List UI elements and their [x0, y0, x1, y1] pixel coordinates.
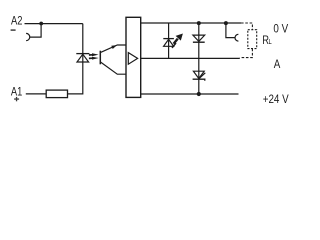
wire: indicator LED branch — [168, 23, 170, 58]
wire: A1 input lead — [26, 93, 46, 95]
minus polarity sign at A2 — [11, 29, 16, 31]
wire: drop from 0V rail to output plug contact — [226, 23, 235, 38]
phototransistor Q1: emitter arrowhead — [111, 45, 117, 49]
zener diode D4: diagonal stroke — [199, 73, 206, 79]
wire: +24V rail — [141, 93, 239, 95]
amplifier box U1 — [126, 17, 141, 97]
wire: freewheel diode branch — [198, 23, 200, 58]
optocoupler light arrow lower — [89, 57, 99, 60]
svg-text:A: A — [274, 58, 281, 71]
wire: left input riser (A2 down through LED to resistor) — [68, 24, 83, 94]
optocoupler light arrow upper — [89, 53, 99, 56]
terminal label A2 — [11, 14, 22, 28]
label 0 V — [273, 22, 288, 35]
wire: drop from A2 junction to plug contact — [30, 24, 41, 37]
zener diode D4: cathode bar with bent tip — [193, 79, 205, 81]
wire: 0V rail — [141, 22, 241, 24]
LED D2 status indicator: triangle — [164, 39, 174, 46]
terminal label A1 — [11, 85, 22, 99]
svg-text:A2: A2 — [11, 14, 22, 28]
svg-text:+24 V: +24 V — [263, 93, 289, 106]
load resistor RL (dashed outline) — [248, 30, 257, 49]
LED D2 status indicator: cathode bar — [163, 38, 174, 40]
phototransistor Q1: emitter line to box — [100, 45, 126, 53]
LED D1 optocoupler input diode: triangle — [77, 54, 89, 62]
wire: zener diode branch — [198, 58, 200, 94]
node: junction dot on 0V rail at output contact — [224, 21, 228, 25]
contact: A2 plug-in connection (arc open left) — [26, 33, 30, 40]
node: junction dot on +24V rail at zener branch — [197, 92, 201, 96]
zener diode D4: triangle — [193, 71, 204, 78]
phototransistor Q1: base bar — [99, 51, 101, 65]
wire: A2 input rail — [25, 23, 83, 25]
svg-text:A1: A1 — [11, 85, 22, 99]
node: A2 junction dot — [39, 22, 43, 26]
resistor R1 (input series resistor) — [46, 90, 67, 98]
LED D2 flash arrow (light emission) — [172, 34, 183, 48]
label A — [274, 58, 281, 71]
svg-text:L: L — [269, 38, 272, 46]
label RL — [262, 34, 272, 48]
LED D1 optocoupler input diode: cathode bar — [76, 53, 89, 55]
diode D3 freewheeling: triangle — [193, 35, 205, 41]
contact: output plug-in connection (arc open right) — [235, 34, 238, 41]
wire: A output rail — [141, 57, 240, 59]
svg-text:0 V: 0 V — [273, 22, 288, 35]
label +24 V — [263, 93, 289, 106]
wire: dashed load return to A rail — [240, 49, 253, 58]
buffer triangle inside U1 — [128, 53, 137, 65]
phototransistor Q1: collector line to box — [100, 62, 126, 74]
diode D3 freewheeling: cathode bar — [193, 41, 205, 43]
wire: dashed 0V continuation to load — [241, 23, 252, 30]
node: junction dot on 0V rail at freewheel branch — [197, 21, 201, 25]
plus polarity sign at A1 — [14, 97, 19, 101]
